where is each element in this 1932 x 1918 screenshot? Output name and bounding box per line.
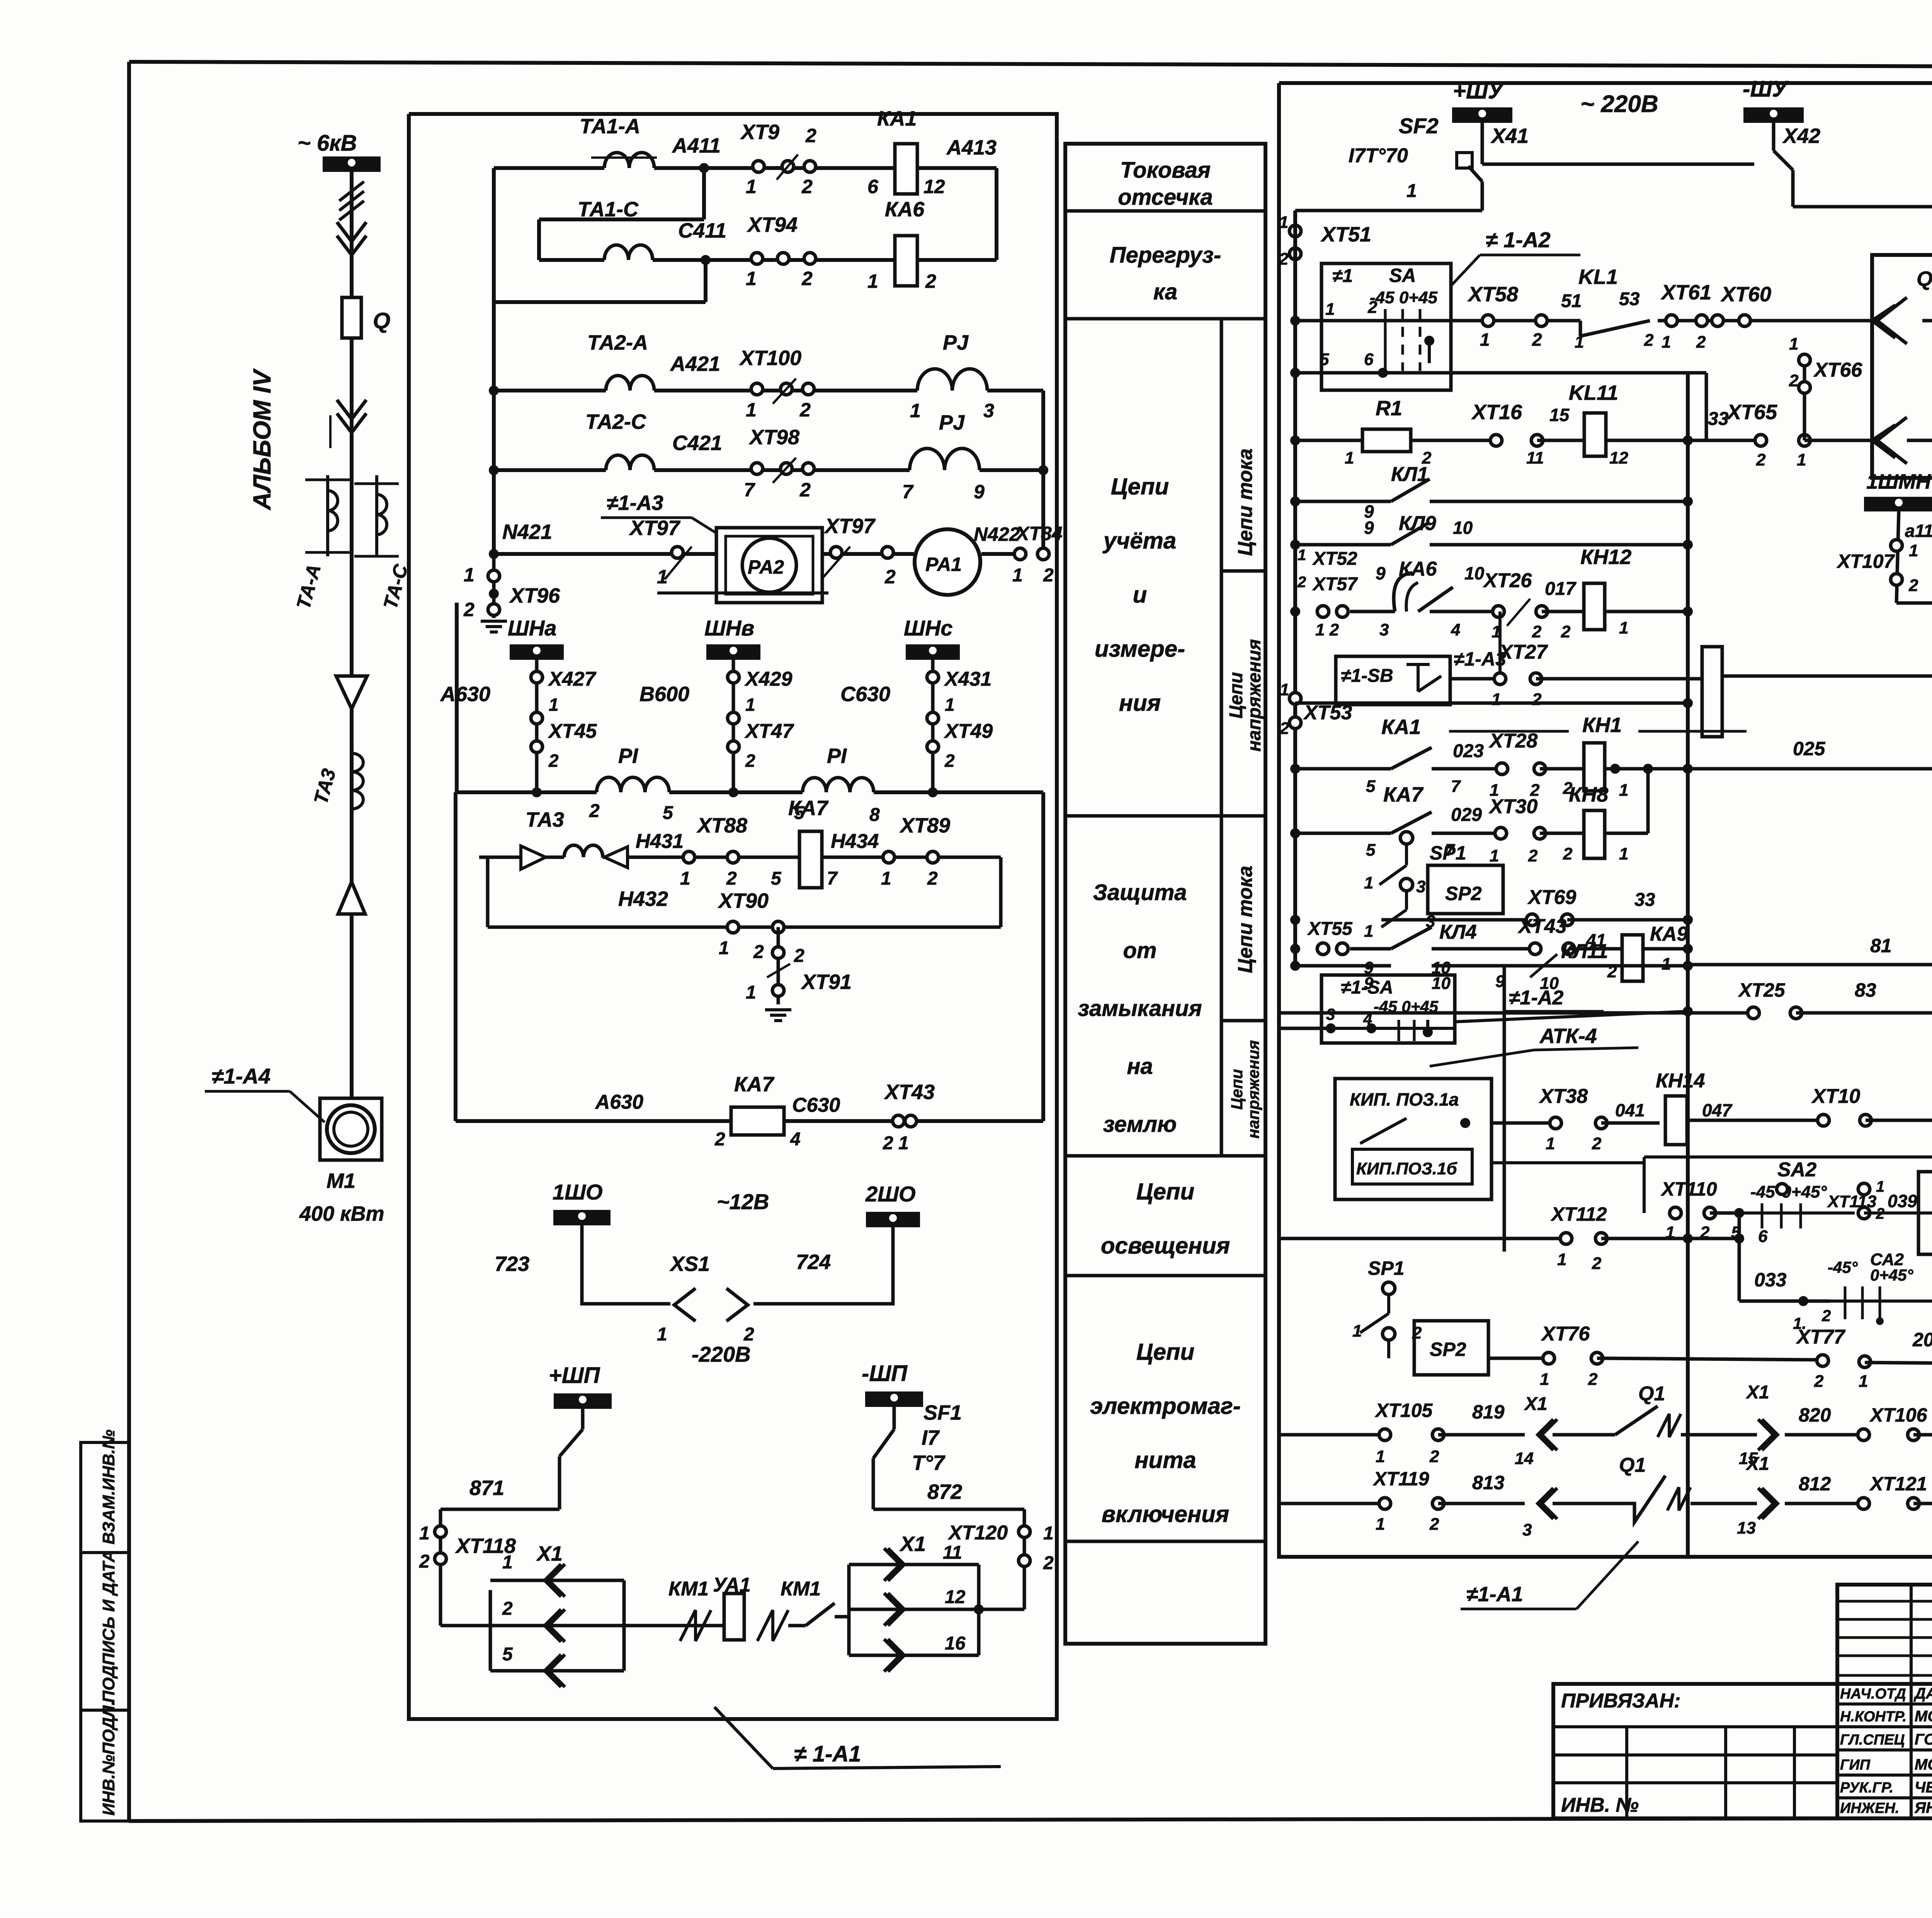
svg-text:ХТ45: ХТ45 <box>548 720 597 742</box>
svg-text:9: 9 <box>1376 563 1386 583</box>
left margin rotated text ПОДПИСЬ И ДАТА <box>99 1550 118 1703</box>
svg-text:1: 1 <box>910 400 921 421</box>
svg-text:5: 5 <box>502 1644 513 1665</box>
svg-text:1: 1 <box>1364 873 1373 892</box>
svg-text:3: 3 <box>1522 1520 1532 1539</box>
svg-text:РУК.ГР.: РУК.ГР. <box>1840 1780 1893 1796</box>
svg-text:033: 033 <box>1754 1269 1787 1291</box>
svg-text:10: 10 <box>1540 974 1559 993</box>
svg-text:ПОДПИСЬ И ДАТА: ПОДПИСЬ И ДАТА <box>99 1550 118 1703</box>
label #1-A3 right <box>1454 648 1506 670</box>
svg-text:С630: С630 <box>840 683 890 706</box>
svg-text:2: 2 <box>1696 333 1706 352</box>
wire drop ШНс <box>928 660 938 797</box>
svg-text:1: 1 <box>1797 450 1806 469</box>
svg-text:Х1: Х1 <box>1524 1394 1548 1414</box>
diode block C67 <box>1918 1145 1932 1254</box>
svg-text:АЛЬБОМ IV: АЛЬБОМ IV <box>248 368 276 511</box>
svg-text:2: 2 <box>463 599 474 620</box>
arrow up symbol feeder <box>338 882 365 914</box>
svg-text:ХТ66: ХТ66 <box>1813 359 1862 381</box>
svg-text:ХТ100: ХТ100 <box>739 347 801 370</box>
svg-text:~ 6кВ: ~ 6кВ <box>298 131 357 156</box>
svg-text:1: 1 <box>1490 846 1499 865</box>
voltage section box <box>456 792 1043 1121</box>
svg-text:1: 1 <box>746 176 757 197</box>
svg-text:81: 81 <box>1870 935 1892 956</box>
label H432 <box>618 887 668 911</box>
svg-text:УА1: УА1 <box>713 1574 751 1596</box>
svg-text:2: 2 <box>1532 330 1542 350</box>
arrester symbol <box>336 676 367 709</box>
svg-text:ХТ65: ХТ65 <box>1726 401 1777 424</box>
svg-text:1: 1 <box>1352 1322 1362 1340</box>
svg-text:КА1: КА1 <box>1381 715 1421 739</box>
terminal XT113 <box>1827 1178 1918 1222</box>
label X41 <box>1482 123 1529 164</box>
svg-text:от: от <box>1123 938 1157 963</box>
svg-text:039: 039 <box>1888 1191 1917 1211</box>
svg-text:2: 2 <box>801 176 813 197</box>
svg-text:2: 2 <box>1588 1370 1598 1389</box>
svg-text:1: 1 <box>1280 680 1289 699</box>
svg-text:ХТ106: ХТ106 <box>1869 1404 1928 1426</box>
svg-text:ИНЖЕН.: ИНЖЕН. <box>1840 1800 1899 1816</box>
svg-text:7: 7 <box>827 868 838 889</box>
terminal XT107 <box>1836 511 1932 603</box>
relay KA7 horizontal <box>714 1073 801 1150</box>
svg-text:ХТ52: ХТ52 <box>1312 549 1357 569</box>
terminal XT16 <box>1471 401 1544 467</box>
contact row KL11 9-10 <box>1295 940 1688 993</box>
svg-text:2: 2 <box>753 942 764 962</box>
wire SA row1 <box>1295 298 1451 321</box>
svg-text:С421: С421 <box>672 432 722 455</box>
svg-text:ХТ49: ХТ49 <box>944 720 993 742</box>
svg-text:ХТ47: ХТ47 <box>744 720 794 742</box>
svg-text:ХЅ1: ХЅ1 <box>669 1252 710 1276</box>
svg-text:Н431: Н431 <box>636 830 684 853</box>
terminal XT47 <box>728 695 794 771</box>
svg-text:Т°7: Т°7 <box>912 1451 946 1475</box>
svg-text:Q1: Q1 <box>1619 1454 1646 1476</box>
svg-text:2: 2 <box>1279 250 1289 268</box>
svg-text:М1: М1 <box>327 1169 355 1193</box>
svg-text:5: 5 <box>1366 841 1376 860</box>
svg-text:3: 3 <box>983 400 994 421</box>
svg-text:ХТ89: ХТ89 <box>899 814 950 837</box>
svg-text:І7: І7 <box>922 1426 940 1449</box>
svg-text:1: 1 <box>680 868 690 889</box>
svg-text:ТА2-С: ТА2-С <box>585 410 646 433</box>
svg-text:724: 724 <box>796 1250 831 1274</box>
relay KH12 <box>1542 545 1688 641</box>
svg-text:КЛ4: КЛ4 <box>1439 921 1477 943</box>
svg-text:Цепи: Цепи <box>1111 474 1169 499</box>
svg-text:723: 723 <box>495 1252 529 1276</box>
svg-text:МОСЕЕНКО: МОСЕЕНКО <box>1915 1756 1932 1773</box>
svg-text:землю: землю <box>1103 1112 1177 1137</box>
wire row XT112 <box>1279 1203 1744 1273</box>
svg-text:041: 041 <box>1615 1100 1645 1120</box>
svg-text:1: 1 <box>1546 1134 1555 1153</box>
svg-text:400 кВт: 400 кВт <box>299 1202 384 1225</box>
breaker SF1 <box>873 1401 1024 1509</box>
switch SA2 group1 <box>1731 1159 1855 1246</box>
wire A411 return loop <box>539 168 704 260</box>
wire row XT76-XT77-SF2-200 <box>1488 1323 1932 1395</box>
label -220V <box>692 1342 751 1366</box>
svg-text:напряжения: напряжения <box>1244 639 1265 751</box>
svg-text:Цепи: Цепи <box>1226 672 1247 719</box>
svg-text:І7Т°70: І7Т°70 <box>1349 144 1408 167</box>
svg-text:029: 029 <box>1451 805 1482 825</box>
breaker aux contact Q12 <box>1907 372 1932 440</box>
svg-text:≠ 1-А1: ≠ 1-А1 <box>794 1741 861 1767</box>
svg-text:1: 1 <box>1325 300 1335 319</box>
svg-text:Х42: Х42 <box>1782 124 1820 148</box>
breaker Q <box>342 297 390 338</box>
svg-text:SP2: SP2 <box>1430 1339 1466 1360</box>
svg-text:РІ: РІ <box>618 744 638 768</box>
svg-text:ка: ка <box>1153 279 1177 304</box>
svg-text:10: 10 <box>1453 518 1473 538</box>
wire row C411 <box>539 258 895 262</box>
svg-text:КА6: КА6 <box>1399 558 1437 580</box>
svg-text:2: 2 <box>1644 331 1654 350</box>
bus bar ШНс <box>904 616 960 660</box>
wire voltage row <box>456 790 1043 794</box>
svg-text:ХТ30: ХТ30 <box>1488 795 1537 818</box>
relay KA7 <box>771 797 838 889</box>
svg-text:KL1: KL1 <box>1578 265 1618 289</box>
svg-text:2: 2 <box>1297 574 1306 591</box>
connector X1 left block <box>440 1542 624 1687</box>
svg-text:4: 4 <box>790 1129 801 1150</box>
svg-text:10: 10 <box>1464 563 1485 583</box>
middle column outer box <box>1065 144 1265 1644</box>
svg-text:ХТ88: ХТ88 <box>696 814 747 837</box>
terminal XT98 <box>744 426 814 501</box>
control bus A vertical <box>1683 373 1693 1557</box>
svg-text:КА9: КА9 <box>1650 923 1688 945</box>
label #1-A4 with leader <box>205 1064 325 1122</box>
wire R row <box>1793 175 1932 207</box>
bus bar 1ШМН <box>1864 470 1932 511</box>
svg-text:В600: В600 <box>639 683 689 706</box>
svg-text:2: 2 <box>1908 576 1918 595</box>
label #1-A2 with leader <box>1451 228 1580 286</box>
svg-text:≠ 1-А2: ≠ 1-А2 <box>1486 228 1551 252</box>
pressure switch SP2 second box <box>1295 1321 1488 1375</box>
terminal XT96 and ground <box>463 554 560 632</box>
svg-text:2: 2 <box>1043 565 1054 586</box>
terminal XT94 <box>746 213 816 289</box>
bus bar +ШП <box>549 1363 612 1409</box>
loop box 01 <box>1644 1157 1688 1238</box>
svg-text:83: 83 <box>1855 979 1876 1001</box>
terminal XT51 <box>1279 213 1371 268</box>
terminal XT66 <box>1789 335 1872 440</box>
svg-text:ХТ76: ХТ76 <box>1541 1323 1590 1345</box>
svg-text:ХТ84: ХТ84 <box>1015 523 1063 544</box>
terminal X431 <box>927 668 992 690</box>
svg-text:2: 2 <box>801 268 813 289</box>
svg-text:1: 1 <box>1012 565 1023 586</box>
svg-text:12: 12 <box>1609 448 1628 467</box>
svg-text:Х1: Х1 <box>899 1532 926 1556</box>
svg-text:ХТ27: ХТ27 <box>1498 641 1548 663</box>
coil PJ phase A <box>910 331 994 421</box>
svg-text:1: 1 <box>549 695 559 715</box>
terminal XT65 <box>1726 401 1810 469</box>
svg-text:1: 1 <box>1619 618 1628 637</box>
svg-text:~ 220В: ~ 220В <box>1580 91 1658 117</box>
svg-text:ХТ112: ХТ112 <box>1550 1203 1607 1225</box>
svg-text:ХТ60: ХТ60 <box>1720 283 1771 306</box>
wire row N421 <box>489 470 1043 559</box>
limit switch box КИП <box>1335 1079 1492 1199</box>
transformer TA3 symbol <box>521 808 628 869</box>
svg-text:Х1: Х1 <box>1745 1382 1769 1403</box>
command switch SA box <box>1321 263 1451 390</box>
svg-text:7: 7 <box>744 479 755 501</box>
svg-text:16: 16 <box>945 1633 966 1654</box>
svg-text:12: 12 <box>945 1587 966 1607</box>
svg-text:5: 5 <box>1366 777 1376 796</box>
row KA6 terminals XT52 XT57 <box>1297 547 1389 639</box>
label A411 <box>672 134 721 173</box>
breaker SF2 labels <box>1349 114 1439 201</box>
svg-text:РІ: РІ <box>827 744 847 768</box>
svg-text:Цепи: Цепи <box>1136 1339 1194 1365</box>
svg-text:1: 1 <box>1662 333 1671 352</box>
svg-text:1: 1 <box>1859 1372 1868 1391</box>
svg-text:КА7: КА7 <box>1383 783 1424 806</box>
svg-text:ХТ26: ХТ26 <box>1483 569 1532 592</box>
svg-text:Х1: Х1 <box>536 1542 563 1565</box>
svg-text:Х431: Х431 <box>944 668 992 690</box>
svg-text:ШНв: ШНв <box>704 616 754 640</box>
svg-text:С411: С411 <box>678 219 726 242</box>
svg-text:ХТ51: ХТ51 <box>1320 223 1371 246</box>
svg-text:ХТ9: ХТ9 <box>740 121 779 144</box>
bus bar +ШУ <box>1452 78 1512 123</box>
svg-text:SA: SA <box>1389 265 1416 286</box>
wire PA2 bottom return <box>457 593 828 792</box>
svg-text:2: 2 <box>805 125 816 146</box>
svg-text:2: 2 <box>419 1551 430 1572</box>
svg-text:ХТ97: ХТ97 <box>629 516 681 540</box>
terminal XT27 row <box>1450 612 1702 709</box>
svg-text:1: 1 <box>657 566 668 588</box>
svg-text:Х427: Х427 <box>548 668 597 690</box>
svg-text:ХТ77: ХТ77 <box>1796 1326 1845 1348</box>
svg-text:SF1: SF1 <box>923 1401 962 1424</box>
svg-text:51: 51 <box>1561 291 1582 311</box>
svg-text:ЯНЧЕНКО: ЯНЧЕНКО <box>1914 1799 1932 1816</box>
svg-text:2: 2 <box>799 399 811 421</box>
svg-text:2: 2 <box>1279 719 1289 738</box>
svg-text:819: 819 <box>1472 1401 1505 1423</box>
svg-text:2: 2 <box>1367 298 1378 317</box>
wire KA1-KA6 right loop <box>917 168 997 260</box>
label 33 row R1 <box>1708 409 1729 429</box>
wire row XT38 <box>1414 1085 1660 1153</box>
relay KH6 row <box>1722 625 1932 712</box>
svg-text:33: 33 <box>1708 409 1729 429</box>
svg-text:KL11: KL11 <box>1569 381 1618 404</box>
svg-text:1: 1 <box>464 564 474 586</box>
svg-text:≠1-А1: ≠1-А1 <box>1466 1583 1523 1606</box>
connector XS1 <box>657 1252 754 1345</box>
svg-text:ХТ91: ХТ91 <box>801 970 852 994</box>
feeder hash marks <box>339 182 364 220</box>
svg-text:1: 1 <box>1619 781 1628 800</box>
svg-text:ХТ110: ХТ110 <box>1660 1178 1717 1200</box>
svg-text:ТА1-А: ТА1-А <box>580 115 640 138</box>
svg-text:ХТ10: ХТ10 <box>1811 1085 1860 1108</box>
svg-text:РА2: РА2 <box>748 556 784 578</box>
wire drop ШНв <box>728 660 738 797</box>
label ~12V <box>717 1189 769 1214</box>
svg-text:ХТ25: ХТ25 <box>1738 979 1786 1001</box>
relay KH1 <box>1540 714 1932 800</box>
svg-text:включения: включения <box>1102 1501 1229 1527</box>
svg-text:023: 023 <box>1453 741 1484 761</box>
terminal X427 <box>531 668 597 690</box>
label A630 <box>440 683 490 706</box>
svg-text:SF2: SF2 <box>1399 114 1439 138</box>
svg-text:напряжения: напряжения <box>1244 1040 1262 1139</box>
svg-text:≠1: ≠1 <box>1332 266 1353 286</box>
svg-text:ХТ113: ХТ113 <box>1827 1192 1876 1211</box>
svg-text:ТА1-С: ТА1-С <box>578 198 639 221</box>
svg-text:1: 1 <box>502 1552 513 1573</box>
bus bar 1ШО <box>553 1180 611 1225</box>
left margin stamp boxes <box>81 1442 129 1821</box>
svg-text:ХТ43: ХТ43 <box>884 1080 935 1104</box>
svg-text:820: 820 <box>1799 1404 1831 1426</box>
bus bar 6kV <box>323 156 381 172</box>
svg-text:1: 1 <box>1376 1447 1385 1466</box>
wire lighting row <box>582 1225 893 1304</box>
terminal XT9 <box>740 121 816 197</box>
svg-text:~12В: ~12В <box>717 1189 769 1214</box>
button box #1-SB <box>1336 656 1450 705</box>
svg-text:ШНа: ШНа <box>508 616 556 640</box>
svg-text:N421: N421 <box>502 520 552 544</box>
right schematic enclosure box <box>1279 83 1932 1557</box>
coil PJ phase C <box>902 411 985 503</box>
svg-text:отсечка: отсечка <box>1118 185 1213 210</box>
svg-text:0+45°: 0+45° <box>1870 1266 1914 1284</box>
rotated strip Цепи тока 1 <box>1221 319 1265 816</box>
svg-text:Н432: Н432 <box>618 887 668 911</box>
wire row 819 Q1 820 <box>1279 1382 1932 1468</box>
svg-text:2: 2 <box>1429 1515 1439 1534</box>
svg-text:ТА2-А: ТА2-А <box>587 331 648 354</box>
svg-text:SA2: SA2 <box>1777 1159 1816 1181</box>
svg-text:Н.КОНТР.: Н.КОНТР. <box>1840 1709 1906 1725</box>
current transformer TA-A <box>293 475 350 612</box>
terminal XT61 <box>1660 281 1711 352</box>
svg-text:5: 5 <box>1320 350 1329 369</box>
relay chain box <box>1702 647 1722 737</box>
relay KA9 <box>1607 923 1688 981</box>
svg-text:-45°: -45° <box>1828 1258 1858 1276</box>
svg-text:ХТ38: ХТ38 <box>1539 1085 1588 1108</box>
svg-text:1: 1 <box>1575 333 1584 352</box>
svg-text:2: 2 <box>1821 1306 1831 1325</box>
contact row KL9 9-10 <box>1295 512 1688 545</box>
svg-text:ХТ61: ХТ61 <box>1660 281 1711 304</box>
motor M1 <box>299 1098 384 1225</box>
svg-text:2: 2 <box>1563 844 1573 863</box>
label #1-A2 second <box>1495 972 1604 1011</box>
svg-text:КЛ1: КЛ1 <box>1391 463 1429 486</box>
svg-text:Х41: Х41 <box>1490 124 1529 148</box>
svg-text:201: 201 <box>1912 1329 1932 1351</box>
svg-text:КМ1: КМ1 <box>781 1578 821 1600</box>
wire row XT110 <box>1660 1178 1744 1242</box>
label A421 <box>670 352 720 375</box>
label #1-A1 with leader (left box) <box>714 1707 1001 1769</box>
svg-text:ХТ120: ХТ120 <box>947 1522 1008 1544</box>
label N422 terminal XT84 <box>974 523 1063 586</box>
wire row SA2 to bus <box>1279 1011 1688 1028</box>
svg-text:3: 3 <box>1416 877 1425 896</box>
terminal XT58 <box>1467 283 1547 350</box>
svg-text:КА7: КА7 <box>788 797 829 820</box>
relay KA6 <box>867 198 936 292</box>
pressure switch SP1 second <box>1352 1257 1422 1358</box>
coil TA1-C <box>578 198 653 260</box>
svg-text:Цепи: Цепи <box>1228 1069 1246 1109</box>
contact KA7 row <box>1295 783 1496 860</box>
wire SF2 down to XT51 <box>1295 182 1482 211</box>
svg-text:ХТ105: ХТ105 <box>1374 1400 1433 1421</box>
svg-text:2: 2 <box>502 1599 513 1619</box>
wire row 813 Q1 812 <box>1279 1454 1932 1539</box>
svg-text:2: 2 <box>1756 450 1766 469</box>
svg-text:2: 2 <box>1532 622 1542 641</box>
svg-text:электромаг-: электромаг- <box>1090 1393 1241 1419</box>
svg-text:КН14: КН14 <box>1656 1070 1705 1092</box>
svg-text:2: 2 <box>1532 690 1542 709</box>
bus bar 2ШО <box>865 1182 920 1227</box>
svg-text:2: 2 <box>927 868 938 889</box>
svg-text:813: 813 <box>1472 1472 1505 1493</box>
svg-text:Защита: Защита <box>1093 880 1187 905</box>
row XT55 KL4 <box>1307 919 1530 977</box>
svg-text:2: 2 <box>1528 846 1538 865</box>
svg-text:≠1-А4: ≠1-А4 <box>212 1064 270 1088</box>
svg-text:-ШУ: -ШУ <box>1743 76 1789 102</box>
label #1-A3 with leader <box>601 491 723 537</box>
pressure switch SP1 <box>1295 832 1466 896</box>
wire row 033 <box>1739 1213 1831 1332</box>
svg-text:С630: С630 <box>792 1094 840 1116</box>
svg-text:14: 14 <box>1515 1449 1534 1468</box>
svg-text:1: 1 <box>1376 1515 1385 1534</box>
svg-text:6: 6 <box>1758 1227 1768 1246</box>
bus bar -ШП <box>862 1361 923 1407</box>
svg-text:ПРИВЯЗАН:: ПРИВЯЗАН: <box>1561 1690 1681 1712</box>
svg-text:5: 5 <box>771 868 782 889</box>
labels 723 724 <box>495 1250 831 1276</box>
svg-text:на: на <box>1127 1054 1153 1079</box>
